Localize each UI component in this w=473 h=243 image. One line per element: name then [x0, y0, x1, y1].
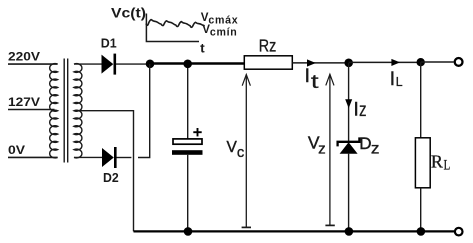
resistor RL	[415, 138, 430, 188]
wire D1 cathode to node A	[116, 63, 147, 65]
junction dot RL to bottom rail	[417, 227, 426, 236]
wire 127V tap	[8, 109, 55, 111]
node junction dot at capacitor top	[183, 60, 192, 69]
transformer T1 core	[63, 59, 65, 163]
node B junction dot	[344, 59, 353, 68]
svg-text:Rz: Rz	[259, 35, 277, 55]
zener diode Dz bar	[338, 137, 360, 146]
wire Rz to node B	[292, 62, 345, 64]
svg-text:D: D	[359, 134, 371, 153]
voltage arrow Vc	[245, 75, 247, 228]
current arrow IL	[391, 59, 400, 66]
svg-text:I: I	[305, 66, 310, 87]
wire zener anode to bottom rail	[348, 154, 350, 232]
zener diode Dz triangle	[340, 142, 358, 153]
node A junction dot	[146, 60, 155, 69]
current arrow Iz	[345, 99, 352, 108]
wire node C down to RL	[420, 62, 422, 138]
waveform inset axes	[146, 14, 199, 42]
svg-text:c: c	[237, 144, 245, 161]
wire node A down to D2 cathode (riser)	[138, 64, 150, 158]
capacitor C1 bottom plate	[172, 150, 203, 155]
svg-text:D2: D2	[103, 170, 119, 185]
wire D2 cathode toward riser (break at crossover)	[117, 157, 132, 159]
voltage arrow Vz	[329, 74, 331, 225]
svg-text:0V: 0V	[8, 143, 26, 157]
wire secondary center tap to bottom rail	[78, 111, 134, 232]
wire 0V tap	[8, 156, 58, 158]
transformer T1 secondary winding	[74, 64, 82, 158]
svg-text:I: I	[390, 69, 395, 90]
output terminal positive	[455, 58, 463, 66]
diode D1	[102, 55, 114, 74]
wire secondary bottom tap to D2 anode	[74, 156, 102, 158]
svg-text:t: t	[311, 72, 320, 93]
svg-text:z: z	[371, 141, 380, 158]
svg-text:L: L	[444, 158, 451, 174]
svg-text:z: z	[318, 140, 326, 157]
svg-text:R: R	[431, 152, 443, 172]
wire capacitor C1 top lead	[187, 64, 189, 139]
svg-text:I: I	[354, 99, 359, 120]
svg-text:220V: 220V	[8, 49, 41, 63]
diode D2	[102, 148, 114, 167]
resistor Rz	[244, 56, 292, 69]
wire RL to bottom rail	[420, 188, 422, 232]
svg-text:127V: 127V	[8, 95, 41, 109]
wire node B down to zener Dz	[348, 63, 350, 142]
svg-text:z: z	[359, 99, 367, 121]
svg-text:D1: D1	[101, 36, 117, 50]
wire capacitor C1 bottom lead	[187, 155, 189, 232]
capacitor C1 plus sign	[193, 131, 201, 133]
capacitor C1 top plate	[173, 139, 202, 144]
current arrow It	[307, 59, 316, 66]
wire secondary top tap to D1 anode	[74, 63, 102, 65]
output terminal negative	[455, 228, 463, 236]
wire node A to Rz (thick rail)	[150, 62, 244, 64]
svg-text:L: L	[396, 74, 403, 89]
waveform inset ripple curve	[146, 20, 204, 28]
node C junction dot	[417, 58, 425, 66]
wire node C to positive output terminal	[421, 61, 454, 63]
svg-text:V: V	[227, 139, 238, 156]
svg-text:Vc(t): Vc(t)	[111, 5, 146, 20]
wire 220V tap	[8, 63, 58, 65]
transformer T1 primary winding	[50, 64, 58, 158]
bottom rail wire	[134, 230, 455, 232]
junction dot zener to bottom rail	[345, 227, 354, 236]
wire node B to node C	[349, 61, 421, 63]
junction dot capacitor to bottom rail	[184, 227, 193, 236]
